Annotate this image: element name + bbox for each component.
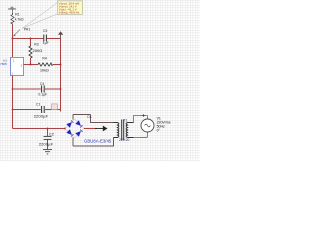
svg-text:C2: C2 bbox=[49, 131, 54, 136]
svg-text:10kΩ: 10kΩ bbox=[40, 68, 49, 72]
svg-text:220:20: 220:20 bbox=[119, 138, 129, 142]
svg-text:4.7kΩ: 4.7kΩ bbox=[15, 18, 24, 22]
svg-text:PR1: PR1 bbox=[24, 27, 31, 31]
svg-text:D1: D1 bbox=[87, 115, 92, 119]
svg-text:1µF: 1µF bbox=[43, 41, 49, 45]
svg-text:R3: R3 bbox=[34, 43, 38, 47]
svg-text:C4: C4 bbox=[40, 82, 44, 86]
svg-text:0.1µF: 0.1µF bbox=[38, 93, 47, 97]
svg-text:7805: 7805 bbox=[0, 62, 7, 66]
svg-text:2200µF: 2200µF bbox=[39, 141, 54, 146]
svg-text:C3: C3 bbox=[43, 29, 47, 33]
svg-text:2200µF: 2200µF bbox=[34, 114, 49, 119]
svg-text:V(freq): 49.9 Hz: V(freq): 49.9 Hz bbox=[59, 11, 80, 15]
svg-text:R1: R1 bbox=[15, 12, 19, 16]
svg-text:R4: R4 bbox=[42, 57, 46, 61]
svg-text:C1: C1 bbox=[36, 103, 40, 107]
svg-text:GBU8A-E3/45: GBU8A-E3/45 bbox=[84, 138, 112, 143]
svg-text:T1: T1 bbox=[123, 118, 127, 122]
svg-text:0°: 0° bbox=[157, 128, 161, 132]
svg-text:200Ω: 200Ω bbox=[33, 48, 43, 53]
